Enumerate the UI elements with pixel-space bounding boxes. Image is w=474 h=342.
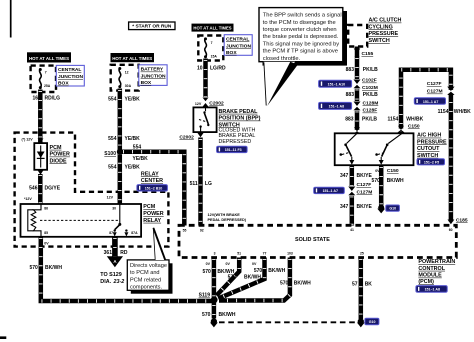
svg-text:0V: 0V: [44, 242, 49, 246]
svg-text:HOT AT ALL TIMES: HOT AT ALL TIMES: [112, 56, 152, 61]
connector C127F/C127M right: [447, 90, 455, 93]
svg-text:BK/YE: BK/YE: [357, 204, 373, 210]
svg-text:151–11 F3: 151–11 F3: [225, 148, 242, 152]
svg-text:SWITCH: SWITCH: [417, 153, 438, 159]
wire 57 BK (pin 25 to G10): [359, 258, 364, 320]
svg-text:C102M: C102M: [362, 85, 378, 91]
svg-text:92: 92: [200, 229, 204, 233]
svg-text:570: 570: [228, 275, 237, 281]
splice S100: [117, 149, 123, 155]
svg-text:87: 87: [109, 231, 113, 235]
fuse box F3 dashed: [198, 36, 223, 61]
svg-text:(*) 12V: (*) 12V: [22, 138, 34, 142]
svg-text:DIODE: DIODE: [50, 158, 67, 164]
svg-text:CUTOUT: CUTOUT: [417, 146, 440, 152]
blue label 151-1 A8: [319, 102, 352, 109]
svg-text:PRESSURE: PRESSURE: [369, 31, 399, 37]
svg-text:DG/YE: DG/YE: [45, 185, 61, 191]
fuse F3 15A: [205, 38, 207, 57]
wire 570 BK/WH (pin 77 to S119): [218, 258, 264, 299]
central junction box label 2: [224, 35, 252, 56]
a/c clutch cycling pressure switch dashed box: [348, 25, 367, 47]
svg-text:SWITCH: SWITCH: [369, 38, 390, 44]
svg-text:A/C CLUTCH: A/C CLUTCH: [369, 18, 402, 24]
svg-text:DEPRESSED: DEPRESSED: [219, 139, 252, 145]
svg-text:JUNCTION: JUNCTION: [141, 73, 166, 79]
svg-text:16: 16: [32, 96, 38, 102]
svg-text:closed throttle.: closed throttle.: [263, 56, 301, 62]
wire 570 BK/WH (S119 to ground): [212, 301, 217, 319]
svg-text:PEDAL DEPRESSED): PEDAL DEPRESSED): [208, 218, 247, 222]
svg-text:C150: C150: [387, 168, 399, 174]
svg-text:151–1 A7: 151–1 A7: [423, 100, 438, 104]
cutout switch right contacts: [388, 133, 402, 143]
svg-text:This signal may be ignored by: This signal may be ignored by: [263, 41, 340, 47]
cutout switch left contacts: [347, 133, 358, 143]
wire 883 PK/LB (C102 to C128): [355, 89, 360, 101]
connector C128M/C128F: [353, 105, 361, 108]
svg-text:570: 570: [280, 281, 289, 287]
svg-text:570: 570: [202, 312, 211, 318]
svg-text:87A: 87A: [131, 231, 138, 235]
brake pedal position switch box: [193, 107, 216, 132]
svg-text:A/C HIGH: A/C HIGH: [417, 133, 441, 139]
fuse F2 30A: [119, 68, 121, 87]
svg-text:12V(WITH BRAKE: 12V(WITH BRAKE: [208, 213, 241, 217]
relay switch: [119, 204, 121, 223]
svg-text:the PCM if TP signal is above: the PCM if TP signal is above: [263, 49, 338, 55]
wire 347 BK/YE (C127 to solid state pin 41): [350, 196, 355, 226]
svg-text:103: 103: [287, 251, 293, 255]
pcm power relay K1 box: [21, 204, 142, 237]
svg-text:C128M: C128M: [363, 101, 379, 107]
svg-text:1154: 1154: [387, 117, 398, 123]
svg-text:to the PCM to disengage the: to the PCM to disengage the: [263, 20, 336, 26]
wire 570 BK/WH (pin 103 to S119): [219, 258, 290, 301]
callout note 2 (directs voltage) shadow: [131, 263, 173, 293]
wire 554 YE/BK branch (S100 right then down to solid state pin 55): [121, 152, 184, 226]
svg-text:YE/BK: YE/BK: [133, 156, 149, 162]
svg-text:883: 883: [346, 92, 355, 98]
svg-text:15A: 15A: [211, 55, 218, 59]
svg-text:0V: 0V: [206, 262, 211, 266]
svg-text:S119: S119: [199, 293, 211, 299]
svg-text:554: 554: [108, 136, 117, 142]
splice S119: [211, 296, 218, 303]
svg-text:570: 570: [372, 178, 381, 184]
svg-text:WH/BK: WH/BK: [454, 109, 471, 115]
svg-text:85: 85: [44, 231, 48, 235]
relay coil: [31, 204, 41, 237]
svg-text:HOT AT ALL TIMES: HOT AT ALL TIMES: [29, 56, 69, 61]
connector C127F/C127M left: [348, 190, 356, 193]
svg-text:BK/WH: BK/WH: [268, 268, 285, 274]
svg-text:10: 10: [197, 66, 203, 72]
fuse box F2 (battery junction box) dashed: [111, 65, 139, 91]
svg-text:12V: 12V: [195, 102, 202, 106]
svg-text:151–1 A7: 151–1 A7: [323, 189, 338, 193]
svg-text:HOT AT ALL TIMES: HOT AT ALL TIMES: [193, 26, 231, 31]
svg-text:30: 30: [112, 207, 116, 211]
svg-text:0V: 0V: [225, 262, 230, 266]
svg-text:7: 7: [45, 71, 47, 75]
svg-text:POWER: POWER: [143, 211, 163, 217]
svg-text:CENTRAL: CENTRAL: [58, 67, 81, 73]
svg-text:LG/RD: LG/RD: [210, 66, 226, 72]
wire 554 YE/BK (fuse F2 down to relay pin 30): [118, 89, 123, 205]
svg-text:C155: C155: [362, 51, 374, 57]
wire 883 PK/LB (C155 to C102): [355, 47, 360, 80]
svg-text:570: 570: [254, 268, 263, 274]
connector C150 top: [397, 129, 404, 132]
svg-text:883: 883: [346, 67, 355, 73]
callout note 1 box: [259, 8, 343, 62]
svg-text:RD/LG: RD/LG: [45, 96, 61, 102]
svg-text:the brake pedal is depressed.: the brake pedal is depressed.: [263, 34, 339, 40]
svg-text:PCM: PCM: [143, 204, 155, 210]
svg-text:570: 570: [202, 269, 211, 275]
svg-text:C2002: C2002: [209, 100, 224, 106]
svg-text:60: 60: [449, 228, 453, 232]
off-page arrow A to S129: [107, 256, 123, 267]
blue label 151-2 F5: [417, 159, 445, 165]
svg-text:PRESSURE: PRESSURE: [417, 139, 447, 145]
battery junction box label: [139, 65, 167, 86]
connector C155: [353, 52, 361, 55]
svg-text:883: 883: [345, 117, 354, 123]
svg-text:BK/YE: BK/YE: [357, 173, 373, 179]
page border artifact bottom-left: [0, 336, 6, 339]
solid state (PCM) dashed box: [179, 225, 456, 257]
svg-text:to PCM and: to PCM and: [130, 270, 160, 276]
svg-text:25A: 25A: [44, 84, 51, 88]
svg-text:BRAKE PEDAL: BRAKE PEDAL: [219, 109, 259, 115]
svg-text:25: 25: [360, 251, 364, 255]
wire 1154 WH/BK loop (C150 up over to C185): [401, 70, 451, 222]
svg-text:CENTER: CENTER: [141, 178, 163, 184]
callout note 1 (BPP note) shadow: [263, 11, 347, 66]
svg-text:1154: 1154: [438, 109, 449, 115]
svg-text:POWER: POWER: [50, 152, 70, 158]
svg-text:0V: 0V: [252, 262, 257, 266]
svg-text:The BPP switch sends a signal: The BPP switch sends a signal: [263, 13, 342, 19]
svg-text:BOX: BOX: [141, 80, 152, 86]
connector C185 end: [448, 220, 455, 225]
svg-text:torque converter clutch when: torque converter clutch when: [263, 27, 337, 33]
svg-text:POSITION (BPP): POSITION (BPP): [219, 116, 261, 122]
svg-text:PCM related: PCM related: [130, 277, 161, 283]
fuse box F1 (central junction box) dashed: [31, 66, 56, 92]
svg-text:CYCLING: CYCLING: [369, 24, 393, 30]
svg-text:PK/LB: PK/LB: [362, 117, 377, 123]
svg-text:YE/BK: YE/BK: [125, 96, 141, 102]
svg-text:BK: BK: [365, 282, 373, 288]
svg-text:41: 41: [350, 228, 354, 232]
svg-text:SOLID STATE: SOLID STATE: [295, 237, 330, 243]
svg-text:151–1 A10: 151–1 A10: [328, 82, 345, 86]
svg-text:YE/BK: YE/BK: [125, 165, 141, 171]
a/c high pressure cutout switch box: [335, 133, 414, 165]
page border artifact top-left: [10, 0, 12, 38]
svg-text:CONTROL: CONTROL: [418, 266, 445, 272]
hot at all times label 2: [111, 53, 155, 62]
start or run label: [129, 22, 175, 30]
wire 883 PK/LB (C128 to cutout switch box): [355, 111, 360, 134]
wire 570 BK/WH (cutout switch to G10): [379, 165, 384, 205]
svg-text:86: 86: [44, 207, 48, 211]
blue label 151-1 A7 left: [314, 187, 345, 193]
blue label 151-1 A7 right: [414, 98, 445, 105]
blue label 151-1 F8: [217, 146, 248, 152]
ground G10 lower: [358, 318, 364, 324]
connector C102F/C102M: [353, 83, 361, 86]
svg-text:151–1 A8: 151–1 A8: [329, 105, 344, 109]
svg-text:BK/WH: BK/WH: [387, 178, 404, 184]
svg-text:C150: C150: [408, 124, 420, 130]
blue label 151-2 B10: [137, 185, 168, 191]
svg-text:3: 3: [214, 252, 216, 256]
svg-text:DIA.: DIA.: [100, 279, 111, 285]
blue label 151-1 A8 pcm: [416, 286, 447, 293]
wire 570 BK/WH (pin 51 to S119): [217, 258, 240, 296]
svg-text:0V: 0V: [375, 169, 380, 173]
wire 361 RD (relay pin 87 to S129 arrow): [112, 237, 118, 257]
svg-text:C185: C185: [456, 217, 468, 223]
svg-text:G10: G10: [389, 207, 396, 211]
fuse F1 25A: [40, 69, 42, 88]
svg-text:347: 347: [340, 204, 349, 210]
wire 347 BK/YE (cutout switch to C127): [350, 165, 355, 186]
svg-text:(PCM): (PCM): [418, 279, 434, 285]
svg-text:151–1 A8: 151–1 A8: [425, 288, 440, 292]
pcm power diode U1: [34, 143, 47, 170]
svg-text:Directs voltage: Directs voltage: [130, 263, 167, 269]
svg-text:G10: G10: [369, 320, 376, 324]
svg-text:77: 77: [263, 251, 267, 255]
svg-text:361: 361: [104, 250, 113, 256]
svg-text:S100: S100: [104, 151, 116, 157]
connector C2002 upper: [202, 101, 209, 104]
svg-text:347: 347: [340, 173, 349, 179]
ground G10 upper: [378, 205, 384, 211]
svg-text:C102F: C102F: [362, 78, 377, 84]
central junction box label 1: [56, 65, 84, 86]
svg-text:BK/WH: BK/WH: [219, 312, 236, 318]
svg-text:*12V: *12V: [24, 197, 32, 201]
svg-text:TO S129: TO S129: [100, 272, 121, 278]
blue label 151-1 A10: [319, 80, 352, 87]
svg-text:BATTERY: BATTERY: [141, 67, 164, 73]
ground bus dashed to G10: [219, 321, 356, 323]
svg-text:7: 7: [211, 41, 213, 45]
svg-text:JUNCTION: JUNCTION: [58, 74, 83, 80]
svg-text:546: 546: [29, 185, 38, 191]
relay center dashed enclosure: [15, 133, 169, 247]
svg-text:LG: LG: [205, 181, 212, 187]
svg-text:POWERTRAIN: POWERTRAIN: [418, 259, 455, 265]
svg-text:* START OR RUN: * START OR RUN: [132, 24, 172, 30]
svg-text:C127F: C127F: [357, 182, 372, 188]
svg-text:JUNCTION: JUNCTION: [226, 43, 251, 49]
svg-text:554: 554: [108, 96, 117, 102]
svg-text:57: 57: [352, 282, 358, 288]
svg-text:C2002: C2002: [179, 134, 194, 140]
wire 570 BK/WH (relay pin 85 to S119 bus): [41, 237, 212, 301]
svg-text:554: 554: [108, 165, 117, 171]
svg-text:PK/LB: PK/LB: [363, 67, 378, 73]
wire 570 BK/WH (pin 3 to S119): [212, 258, 217, 300]
svg-text:PK/LB: PK/LB: [363, 92, 378, 98]
svg-text:C127M: C127M: [357, 189, 373, 195]
svg-text:BK/WH: BK/WH: [45, 265, 62, 271]
svg-text:23-2: 23-2: [113, 279, 125, 285]
callout note 1 tail: [264, 62, 296, 107]
svg-text:BOX: BOX: [58, 81, 69, 87]
svg-text:51: 51: [237, 251, 241, 255]
wire 511 LG (BPP switch to solid state pin 92): [198, 138, 203, 226]
svg-text:BOX: BOX: [226, 50, 237, 56]
svg-text:151–2 F5: 151–2 F5: [424, 160, 439, 164]
svg-text:C127F: C127F: [427, 81, 442, 87]
hot at all times label 3: [192, 24, 234, 32]
svg-text:RELAY: RELAY: [141, 171, 159, 177]
svg-text:RD: RD: [120, 250, 128, 256]
svg-text:511: 511: [190, 181, 198, 187]
svg-text:554: 554: [133, 145, 142, 151]
svg-text:CENTRAL: CENTRAL: [226, 37, 249, 43]
svg-text:151–2 B10: 151–2 B10: [145, 187, 163, 191]
svg-text:YE/BK: YE/BK: [125, 136, 141, 142]
wire 10 LG/RD (fuse F3 to BPP switch): [203, 59, 208, 98]
wire 546 DG/YE (diode to relay coil pin 86): [38, 174, 43, 204]
svg-text:55: 55: [183, 229, 187, 233]
svg-text:C127M: C127M: [427, 89, 443, 95]
svg-text:WH/BK: WH/BK: [406, 117, 423, 123]
svg-text:12: 12: [125, 71, 129, 75]
svg-text:PCM: PCM: [50, 145, 62, 151]
callout note 2 box: [127, 260, 169, 290]
wire 16 RD/LG (fuse F1 to PCM power diode): [38, 90, 43, 143]
svg-text:MODULE: MODULE: [418, 273, 442, 279]
svg-text:C128F: C128F: [363, 108, 378, 114]
ground at S119: [211, 318, 217, 324]
svg-text:30A: 30A: [125, 84, 132, 88]
svg-text:components.: components.: [130, 285, 162, 291]
relay mechanical link dashed: [40, 219, 118, 221]
svg-text:570: 570: [29, 265, 38, 271]
svg-text:RELAY: RELAY: [143, 218, 161, 224]
bpp switch contacts: [205, 107, 207, 111]
callout note 1 right shadow bar: [343, 11, 347, 66]
svg-text:BK/WH: BK/WH: [294, 281, 311, 287]
callout note 2 tail: [153, 228, 165, 260]
hot at all times label 1: [27, 52, 71, 62]
svg-text:12V: 12V: [107, 195, 114, 199]
